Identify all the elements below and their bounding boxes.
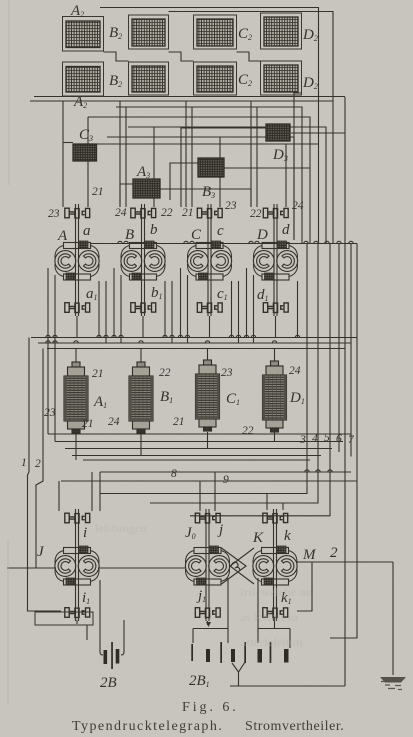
wire I lever stub [76, 620, 78, 624]
wire line K-M [297, 561, 393, 563]
relay unit C [187, 204, 231, 316]
wire left v1 [28, 338, 62, 612]
svg-text:23: 23 [44, 407, 56, 419]
wire J cell box [193, 578, 228, 643]
relay unit J [185, 509, 229, 621]
wire bus y337 [31, 337, 357, 339]
wire bus y343 [38, 342, 351, 344]
wire B3 left [170, 163, 198, 200]
baseplate I [35, 612, 93, 625]
coil A2 lower [63, 62, 104, 96]
coil C1 [196, 360, 220, 431]
wire top bus 1 [100, 8, 319, 244]
coil B2 lower [129, 62, 169, 95]
relay unit I [55, 509, 99, 621]
wire coil buses [48, 433, 351, 435]
wire I battery lead right [121, 620, 124, 655]
wire coil C1 top [207, 349, 209, 362]
wire relay A box left [48, 268, 55, 442]
wire hop bumps y243 [118, 241, 353, 243]
wire D3 left [181, 128, 266, 207]
wire feeder b1 [119, 101, 121, 207]
wire feeder b2 [125, 107, 127, 207]
svg-text:4: 4 [312, 433, 318, 445]
svg-text:1: 1 [21, 457, 27, 469]
wire I plate lead [86, 625, 88, 640]
wire feeder c1 [185, 101, 187, 207]
svg-text:9: 9 [223, 474, 229, 486]
relay unit B [121, 204, 165, 316]
wire mid h4 [107, 137, 294, 240]
svg-text:Stromvertheiler.: Stromvertheiler. [245, 719, 344, 734]
wire relay A box right [99, 281, 106, 343]
svg-text:k: k [284, 528, 291, 544]
wire B3 right [224, 167, 310, 169]
number labels [21, 186, 355, 486]
wire I battery lead left [100, 580, 103, 655]
wire hop bumps y343 [46, 341, 277, 343]
page streak top left [8, 0, 10, 185]
wire column connector CD [237, 52, 261, 61]
wire feeder b3 [153, 127, 155, 207]
svg-text:21: 21 [182, 207, 194, 219]
svg-text:21: 21 [92, 368, 104, 380]
labels bottom relays [37, 522, 338, 606]
wire coil B1 bottom [140, 432, 142, 456]
relay unit A [55, 204, 99, 316]
battery 2B1 [191, 642, 288, 663]
wire feeder a [62, 101, 64, 207]
svg-text:2B: 2B [100, 675, 117, 691]
coil D3 [266, 124, 290, 141]
wire line I-J [98, 567, 186, 569]
wire ground lead [392, 562, 394, 675]
svg-text:22: 22 [250, 208, 262, 220]
wire coil C1 bottom [207, 432, 209, 449]
wire bus 9 [61, 480, 357, 482]
wire I feeders [59, 472, 100, 511]
wire M down [297, 562, 312, 611]
svg-text:d: d [282, 222, 290, 238]
wire right v A [294, 93, 301, 240]
svg-text:Typendrucktelegraph.: Typendrucktelegraph. [72, 719, 222, 734]
wire bus y348 [47, 348, 345, 350]
wire feeder d3 [285, 144, 287, 207]
wire hop bus y243 [90, 243, 357, 245]
svg-text:8: 8 [171, 468, 177, 480]
svg-text:ird, welche un: ird, welche un [240, 585, 313, 599]
wire top bus 2 [169, 12, 334, 244]
svg-text:24: 24 [115, 207, 127, 219]
relay unit D [253, 204, 297, 316]
wire bus 8 [100, 471, 351, 473]
wire feeder d2 [256, 107, 258, 207]
svg-text:C: C [191, 227, 202, 243]
wire feeder d1 [250, 101, 252, 207]
junction arrow J [206, 622, 211, 627]
wire battery2 funnel [232, 662, 245, 686]
wire column connector BC [169, 52, 194, 61]
wire mid h1 [116, 107, 302, 243]
wire relay D box [247, 268, 298, 343]
wire feeder a2 [87, 117, 89, 207]
wire right v long [344, 97, 346, 686]
relay unit K [253, 509, 297, 621]
wire under coil boxes 2 [30, 100, 333, 102]
wire relay B box [114, 268, 172, 343]
svg-text:c: c [217, 223, 224, 239]
coil A3 [133, 179, 160, 198]
svg-text:B: B [125, 227, 134, 243]
wire mid h3 [128, 127, 326, 243]
wire C3 left [63, 142, 73, 144]
wire D3 right [291, 132, 345, 134]
labels top coils [70, 3, 318, 200]
svg-text:atterieleitun: atterieleitun [240, 635, 303, 649]
page streak bottom left [7, 540, 9, 705]
wire coil B1 top [140, 349, 142, 364]
svg-text:i: i [83, 525, 87, 541]
ghost bleed-through text [95, 521, 313, 649]
wire A3 right [160, 189, 251, 207]
wire A3 left [120, 184, 133, 207]
wire right v 357 [330, 244, 357, 639]
coil D1 [263, 361, 287, 432]
coil B1 [129, 362, 153, 433]
svg-text:as Relais in: as Relais in [240, 610, 298, 624]
wire hop bumps y337 [46, 335, 300, 337]
wire C3 right [97, 143, 319, 145]
wire coil D1 top [274, 349, 276, 363]
svg-text:24: 24 [108, 416, 120, 428]
svg-text:21: 21 [82, 418, 94, 430]
svg-text:22: 22 [159, 367, 171, 379]
svg-text:6: 6 [336, 433, 342, 445]
coil C2 upper [194, 15, 237, 49]
ground [380, 677, 406, 690]
wire column connector AB [104, 52, 129, 61]
svg-text:22: 22 [242, 425, 254, 437]
wire line left stub [7, 567, 56, 569]
wire feeder c2 [191, 107, 193, 207]
svg-text:K: K [252, 530, 264, 546]
wire feeder c3 [219, 137, 221, 207]
wire mid h2 [88, 117, 310, 243]
svg-text:21: 21 [173, 416, 185, 428]
svg-text:23: 23 [221, 367, 233, 379]
svg-text:2: 2 [35, 458, 41, 470]
svg-text:M: M [302, 547, 317, 563]
wire bottom h686 [230, 685, 345, 687]
svg-text:D: D [256, 227, 268, 243]
svg-text:24: 24 [289, 365, 301, 377]
wire left v2 [36, 349, 43, 569]
wire mid verticals 3-7 [100, 244, 307, 494]
labels coils A1-D1 [93, 389, 305, 410]
wire lever stubs to bus [77, 316, 276, 338]
svg-text:leistungen: leistungen [95, 521, 147, 535]
coil D2 upper [261, 13, 302, 49]
coil C3 [73, 144, 97, 161]
svg-text:2: 2 [330, 545, 338, 561]
svg-text:21: 21 [92, 186, 104, 198]
wire bowtie crossing [222, 548, 255, 584]
svg-text:a: a [83, 223, 91, 239]
wire J feeders [200, 472, 215, 511]
svg-text:3: 3 [299, 434, 306, 446]
svg-text:A: A [57, 228, 68, 244]
svg-text:5: 5 [324, 432, 330, 444]
wire coil D1 bottom [274, 431, 276, 442]
svg-text:22: 22 [161, 207, 173, 219]
wire hop bumps y472 [305, 470, 332, 472]
wire coil A1 bottom [75, 432, 77, 460]
coil B2 upper [129, 15, 169, 49]
wire K cell box [258, 578, 290, 648]
labels relay row [57, 222, 290, 303]
coil C2 lower [194, 62, 237, 95]
coil D2 lower [261, 61, 302, 95]
bowtie spring [231, 562, 240, 570]
wire K feeders [267, 494, 283, 511]
coil A1 [64, 362, 88, 433]
svg-text:24: 24 [292, 200, 304, 212]
wire relay C box [181, 268, 239, 343]
coil A2 upper [63, 17, 104, 52]
wire coil A1 top [75, 349, 77, 364]
battery 2B [104, 642, 120, 669]
coil B3 [198, 158, 224, 177]
wire under coil boxes 1 [34, 96, 345, 98]
svg-text:b: b [150, 222, 158, 238]
svg-text:23: 23 [225, 200, 237, 212]
svg-text:23: 23 [48, 208, 60, 220]
